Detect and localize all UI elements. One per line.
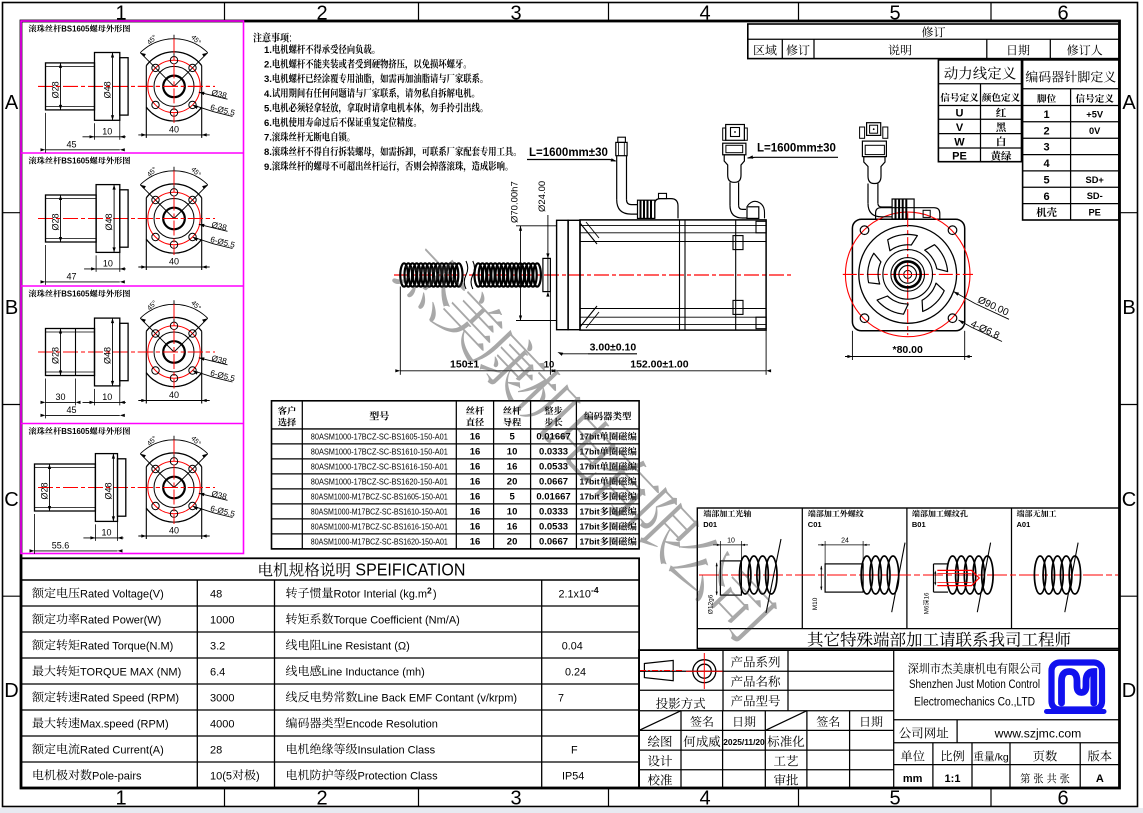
- svg-text:-4: -4: [591, 585, 599, 595]
- front view cable elbow: [867, 184, 869, 204]
- svg-text:Electromechanics Co.,LTD: Electromechanics Co.,LTD: [914, 695, 1035, 709]
- svg-text:mm: mm: [903, 773, 923, 785]
- svg-text:10: 10: [102, 126, 112, 136]
- svg-text:Ø48: Ø48: [103, 482, 113, 499]
- nut 4 dim 40: [138, 535, 209, 537]
- svg-text:55.6: 55.6: [52, 540, 70, 550]
- model table headers: [278, 406, 295, 415]
- svg-text:C: C: [1122, 489, 1136, 511]
- right cable gland: [747, 207, 759, 219]
- nut 4 bolt holes: [189, 465, 196, 472]
- svg-text:80ASM1000-17BCZ-SC-BS1620-150-: 80ASM1000-17BCZ-SC-BS1620-150-A01: [311, 477, 448, 486]
- nut 3 angle dim 45deg: [140, 318, 174, 352]
- svg-text:C01: C01: [808, 520, 822, 529]
- svg-text:4: 4: [699, 3, 710, 25]
- flange taper lines: [580, 223, 597, 244]
- motor body: [580, 220, 766, 330]
- title block grid: [639, 670, 894, 672]
- end panel title C01: [808, 510, 864, 518]
- nut 4 bolt circle red: [148, 461, 200, 513]
- svg-text:TORQUE MAX (NM): TORQUE MAX (NM): [80, 666, 181, 678]
- svg-text:SD+: SD+: [1086, 175, 1105, 185]
- svg-text:3.: 3.: [264, 74, 272, 85]
- nut 4 red crosshair: [173, 440, 175, 525]
- svg-text:L=1600mm±30: L=1600mm±30: [757, 143, 836, 155]
- nut 4 side view: [38, 487, 215, 489]
- nut 1 dim 40: [138, 134, 209, 136]
- svg-text:2025/11/20: 2025/11/20: [723, 737, 765, 747]
- ball screw coil right segment: [475, 263, 483, 286]
- svg-text:30: 30: [55, 392, 65, 402]
- svg-text:10: 10: [102, 392, 112, 402]
- signature rows: [648, 735, 672, 747]
- svg-text:Rated Power(W): Rated Power(W): [80, 614, 161, 626]
- nut 3 label D38: [199, 358, 211, 361]
- svg-text:Max.speed (RPM): Max.speed (RPM): [80, 718, 169, 730]
- svg-text:0.0533: 0.0533: [539, 462, 568, 473]
- svg-text:2.: 2.: [264, 60, 272, 71]
- svg-text:16: 16: [470, 432, 481, 443]
- svg-text:16: 16: [470, 462, 481, 473]
- svg-text:16: 16: [470, 492, 481, 503]
- left cable gland on body: [638, 200, 655, 218]
- dim D70.00h7: [516, 225, 556, 227]
- svg-text:C: C: [4, 489, 18, 511]
- svg-text:4000: 4000: [210, 718, 234, 730]
- svg-text:0.24: 0.24: [565, 666, 586, 678]
- svg-text:0.0667: 0.0667: [539, 477, 568, 488]
- nut 2 front view circles: [146, 184, 201, 198]
- svg-text:A: A: [5, 92, 19, 114]
- revision table: [748, 24, 1119, 59]
- svg-text:Line Inductance (mh): Line Inductance (mh): [322, 666, 425, 678]
- svg-text:SD-: SD-: [1087, 191, 1103, 201]
- nut 3 label 6-D5.5: [193, 371, 214, 378]
- svg-text:0.0667: 0.0667: [539, 537, 568, 548]
- svg-text:40: 40: [169, 390, 179, 400]
- nut 4 label D38: [199, 493, 211, 496]
- svg-text:6.4: 6.4: [210, 666, 225, 678]
- dim D24.00: [547, 215, 549, 258]
- nut 1 red crosshair: [173, 38, 175, 123]
- svg-text:152.00±1.00: 152.00±1.00: [630, 359, 688, 371]
- end panel A01 drawing: [1034, 556, 1045, 594]
- company logo JMC: [1047, 663, 1105, 712]
- nut 2 bottom dims: [95, 255, 97, 272]
- svg-text:2: 2: [316, 788, 327, 810]
- svg-text:*80.00: *80.00: [893, 344, 924, 356]
- svg-text:L=1600mm±30: L=1600mm±30: [529, 147, 608, 159]
- svg-text:1000: 1000: [210, 614, 234, 626]
- end panel C01 thread dim: [820, 566, 822, 590]
- nut 3 dim D28: [60, 329, 62, 376]
- svg-text:M6深16: M6深16: [923, 592, 931, 614]
- nut 1 bolt holes: [189, 64, 196, 71]
- svg-text:0.01667: 0.01667: [536, 492, 570, 503]
- body section verticals: [679, 220, 681, 330]
- svg-text:IP54: IP54: [562, 770, 584, 782]
- nut 3 red crosshair: [173, 304, 175, 389]
- svg-text:10: 10: [507, 507, 518, 518]
- end panel title A01: [1017, 510, 1057, 518]
- svg-text:Ø28: Ø28: [40, 482, 50, 499]
- svg-text:Ø28: Ø28: [51, 81, 61, 98]
- svg-text:24: 24: [841, 538, 849, 545]
- rear corner bolts: [756, 221, 766, 233]
- svg-text:16: 16: [470, 537, 481, 548]
- svg-text:): ): [433, 588, 437, 600]
- encoder pin definition table: [1023, 60, 1119, 220]
- power line definition table: [938, 60, 1021, 162]
- svg-text:B: B: [1122, 297, 1135, 319]
- front view cable gland: [892, 199, 914, 219]
- svg-text:5: 5: [889, 3, 900, 25]
- svg-text:A01: A01: [1017, 520, 1031, 529]
- nut 4 front view circles: [146, 453, 201, 467]
- svg-text:D: D: [1122, 680, 1136, 702]
- notes title: [253, 32, 292, 44]
- end panel D01 diameter dim: [716, 563, 718, 595]
- svg-text:80ASM1000-17BCZ-SC-BS1610-150-: 80ASM1000-17BCZ-SC-BS1610-150-A01: [311, 447, 448, 456]
- nut 1 dim D48: [112, 53, 114, 121]
- svg-text:80ASM1000-M17BCZ-SC-BS1616-150: 80ASM1000-M17BCZ-SC-BS1616-150-A01: [311, 522, 448, 531]
- svg-text:BS1605: BS1605: [61, 290, 90, 299]
- nut panel 4 title: [29, 427, 130, 436]
- end panels red centerline: [699, 574, 1118, 576]
- svg-text:80ASM1000-M17BCZ-SC-BS1610-150: 80ASM1000-M17BCZ-SC-BS1610-150-A01: [311, 507, 448, 516]
- svg-text:Rated Current(A): Rated Current(A): [80, 744, 164, 756]
- svg-text:Ø24.00: Ø24.00: [537, 181, 548, 212]
- front view body circle: [859, 226, 957, 324]
- nut 2 label 6-D5.5: [193, 237, 214, 244]
- nut 1 label 6-D5.5: [193, 105, 214, 112]
- svg-text:+5V: +5V: [1086, 110, 1104, 120]
- svg-text:Line Resistant (Ω): Line Resistant (Ω): [322, 640, 410, 652]
- svg-text:48: 48: [210, 588, 222, 600]
- svg-text:4: 4: [1044, 158, 1051, 170]
- front view square flange: [852, 219, 964, 331]
- svg-text:40: 40: [169, 124, 179, 134]
- svg-text:B01: B01: [912, 520, 926, 529]
- nut 3 bolt circle red: [148, 326, 200, 378]
- svg-text:2: 2: [427, 585, 432, 595]
- svg-text:4: 4: [699, 788, 710, 810]
- model selection table: [272, 401, 640, 549]
- bottom dimension lines: [399, 287, 401, 375]
- svg-text:BS1605: BS1605: [61, 157, 90, 166]
- svg-text:10: 10: [101, 527, 111, 537]
- svg-text:28: 28: [210, 744, 222, 756]
- svg-text:10: 10: [727, 538, 735, 545]
- dim *80.00: [851, 331, 853, 360]
- svg-text:5: 5: [509, 432, 515, 443]
- svg-text:80ASM1000-17BCZ-SC-BS1616-150-: 80ASM1000-17BCZ-SC-BS1616-150-A01: [311, 462, 448, 471]
- svg-text:16: 16: [507, 522, 518, 533]
- svg-text:Line Back EMF Contant (v/krpm): Line Back EMF Contant (v/krpm): [358, 692, 518, 704]
- front view red circle D90: [845, 212, 970, 337]
- svg-text:0.0533: 0.0533: [539, 522, 568, 533]
- right cable tube: [729, 182, 731, 205]
- nut 2 red crosshair: [173, 171, 175, 256]
- front view connector body: [867, 123, 881, 136]
- svg-text:D01: D01: [703, 520, 717, 529]
- svg-text:0.0333: 0.0333: [539, 507, 568, 518]
- svg-text:Ø48: Ø48: [103, 81, 113, 98]
- notes list: [264, 44, 374, 56]
- svg-text:10: 10: [507, 447, 518, 458]
- svg-text:/kg: /kg: [995, 752, 1009, 764]
- svg-text:80ASM1000-17BCZ-SC-BS1605-150-: 80ASM1000-17BCZ-SC-BS1605-150-A01: [311, 432, 448, 441]
- svg-text:Ø28: Ø28: [51, 347, 61, 364]
- svg-text:F: F: [571, 744, 578, 756]
- svg-text:A: A: [1096, 773, 1104, 785]
- nut 2 bolt circle red: [148, 192, 200, 244]
- revision table headers: [922, 26, 945, 37]
- nut 1 dim D28: [60, 63, 62, 110]
- svg-text:U: U: [956, 108, 964, 120]
- svg-text:1:1: 1:1: [945, 773, 961, 785]
- svg-text:): ): [256, 770, 260, 782]
- nut 1 side view: [38, 85, 215, 87]
- svg-text:1: 1: [115, 788, 126, 810]
- svg-text:D: D: [4, 680, 18, 702]
- company name: [908, 662, 1041, 674]
- end panel title B01: [912, 510, 968, 518]
- nut 4 bottom dims: [94, 524, 96, 541]
- svg-text:8.: 8.: [264, 147, 272, 158]
- svg-text:Rated Voltage(V): Rated Voltage(V): [80, 588, 164, 600]
- svg-text:80ASM1000-M17BCZ-SC-BS1605-150: 80ASM1000-M17BCZ-SC-BS1605-150-A01: [311, 492, 448, 501]
- svg-text:10: 10: [103, 258, 113, 268]
- svg-text:Pole-pairs: Pole-pairs: [92, 770, 142, 782]
- company grid: [894, 719, 1120, 721]
- svg-text:7.: 7.: [264, 133, 272, 144]
- nut panel 1 title: [29, 25, 130, 34]
- nut 2 label D38: [199, 224, 211, 227]
- svg-text:0.04: 0.04: [562, 640, 583, 652]
- svg-text:3.2: 3.2: [210, 640, 225, 652]
- nut 1 angle dim 45deg: [140, 53, 174, 87]
- svg-text:4.: 4.: [264, 89, 272, 100]
- front view red crosshair: [907, 213, 909, 335]
- left cable tube: [616, 156, 618, 200]
- svg-text:Insulation Class: Insulation Class: [358, 744, 436, 756]
- svg-text:7: 7: [558, 692, 564, 704]
- svg-text:W: W: [954, 136, 965, 148]
- svg-text:Rotor Interial (kg.m: Rotor Interial (kg.m: [334, 588, 428, 600]
- svg-text:17bit: 17bit: [580, 522, 600, 532]
- label D90.00: [954, 292, 976, 304]
- svg-text:16: 16: [470, 522, 481, 533]
- svg-text:40: 40: [169, 526, 179, 536]
- svg-text:3: 3: [510, 3, 521, 25]
- projection symbol trapezoid: [644, 660, 673, 680]
- svg-text:5: 5: [509, 492, 515, 503]
- signature header diagonals: [639, 711, 681, 731]
- nut 2 bolt holes: [189, 196, 196, 203]
- nut panels magenta border: [21, 21, 244, 554]
- svg-text:2: 2: [1044, 125, 1050, 137]
- svg-text:0.0333: 0.0333: [539, 447, 568, 458]
- front view fan slots: [888, 234, 918, 250]
- svg-text:6: 6: [1044, 191, 1050, 203]
- svg-text:10(5: 10(5: [210, 770, 232, 782]
- projection symbol circle: [693, 660, 716, 683]
- svg-text:10: 10: [544, 360, 555, 371]
- svg-text:6.: 6.: [264, 118, 272, 129]
- svg-text:6: 6: [1057, 788, 1068, 810]
- end panel B01 thread dim: [934, 572, 936, 584]
- svg-text:1: 1: [1044, 109, 1050, 121]
- nut 3 bottom dims: [94, 389, 96, 406]
- svg-text:16: 16: [470, 507, 481, 518]
- front view inner circles: [883, 250, 933, 300]
- svg-text:47: 47: [66, 271, 76, 281]
- end machining note: [808, 632, 1071, 647]
- svg-text:3.00±0.10: 3.00±0.10: [590, 342, 637, 354]
- svg-text:5: 5: [1044, 174, 1050, 186]
- title block labels: [656, 697, 705, 709]
- svg-text:B: B: [5, 297, 18, 319]
- svg-text:3: 3: [510, 788, 521, 810]
- svg-text:0V: 0V: [1089, 126, 1101, 136]
- nut 1 label D38: [199, 92, 211, 95]
- nut 2 dim 40: [138, 266, 209, 268]
- svg-text:5.: 5.: [264, 103, 272, 114]
- svg-text:45: 45: [66, 405, 76, 415]
- nut 1 bottom dims: [94, 123, 96, 140]
- svg-text:PE: PE: [952, 151, 967, 163]
- svg-text:V: V: [956, 122, 964, 134]
- spec table rows: [32, 587, 164, 600]
- svg-text:9.: 9.: [264, 162, 272, 173]
- nut 1 bolt circle red: [148, 60, 200, 112]
- nut 3 front view circles: [146, 317, 201, 331]
- title block outline: [639, 650, 1120, 788]
- svg-text:Ø70.00h7: Ø70.00h7: [510, 181, 521, 223]
- nut 3 dim 40: [138, 400, 209, 402]
- nut 4 label 6-D5.5: [193, 506, 214, 513]
- nut 2 dim D48: [113, 185, 115, 253]
- nut 4 dim D48: [112, 454, 114, 522]
- screw break lines: [464, 261, 468, 289]
- nut 4 dim D28: [49, 464, 51, 511]
- nut 2 angle dim 45deg: [140, 185, 174, 219]
- svg-text:Ø48: Ø48: [103, 347, 113, 364]
- nut 3 dim D48: [112, 318, 114, 386]
- label 4-D6.8: [959, 320, 973, 328]
- svg-text:5: 5: [889, 788, 900, 810]
- svg-text:BS1605: BS1605: [61, 427, 90, 436]
- svg-text:PE: PE: [1088, 208, 1100, 218]
- svg-text:2.1x10: 2.1x10: [559, 588, 591, 600]
- nut panel 2 title: [29, 157, 130, 166]
- nut 1 front view circles: [146, 52, 201, 66]
- svg-text:Shenzhen Just Motion Control: Shenzhen Just Motion Control: [909, 677, 1040, 691]
- right cable connector: [726, 125, 745, 141]
- nut panel 3 title: [29, 290, 130, 299]
- svg-text:6: 6: [1057, 3, 1068, 25]
- nut 3 bolt holes: [189, 330, 196, 337]
- svg-text:17bit: 17bit: [580, 537, 600, 547]
- screw end journal: [543, 258, 551, 291]
- end machining panels box: [697, 508, 1119, 648]
- end panel D01 drawing: [720, 561, 741, 595]
- motor pilot plate: [557, 220, 569, 329]
- svg-text:Rated Speed (RPM): Rated Speed (RPM): [80, 692, 179, 704]
- zone ticks: [224, 3, 226, 22]
- left cable connector: [618, 137, 626, 142]
- front view top connector dome: [876, 208, 940, 220]
- svg-text:BS1605: BS1605: [61, 25, 90, 34]
- svg-text:Torque Coefficient (Nm/A): Torque Coefficient (Nm/A): [334, 614, 460, 626]
- svg-text:16: 16: [470, 477, 481, 488]
- svg-text:40: 40: [169, 257, 179, 267]
- svg-text:www.szjmc.com: www.szjmc.com: [994, 727, 1082, 741]
- motor flange plate: [568, 220, 580, 329]
- end panel B01 drawing: [934, 563, 949, 565]
- motor specification table: [21, 558, 639, 788]
- svg-text:Ø28: Ø28: [51, 213, 61, 230]
- svg-text::: :: [289, 33, 292, 45]
- svg-text:20: 20: [507, 477, 518, 488]
- nut 4 angle dim 45deg: [140, 454, 174, 488]
- svg-text:16: 16: [470, 447, 481, 458]
- svg-text:Rated Torque(N.M): Rated Torque(N.M): [80, 640, 173, 652]
- svg-text:80ASM1000-M17BCZ-SC-BS1620-150: 80ASM1000-M17BCZ-SC-BS1620-150-A01: [311, 537, 448, 546]
- ball screw coil left segment: [400, 263, 408, 286]
- svg-text:16: 16: [507, 462, 518, 473]
- svg-text:A: A: [1122, 92, 1136, 114]
- end panel title D01: [703, 510, 751, 518]
- svg-text:1.: 1.: [264, 45, 272, 56]
- svg-text:M10: M10: [812, 597, 819, 610]
- watermark company name diagonal: [391, 240, 780, 646]
- nut 2 dim D28: [60, 195, 62, 242]
- svg-text:17bit: 17bit: [580, 507, 600, 517]
- end panel B01 red tapped hole: [937, 570, 979, 585]
- svg-text:Encode Resolution: Encode Resolution: [346, 718, 438, 730]
- svg-text:2: 2: [316, 3, 327, 25]
- svg-text:3: 3: [1044, 142, 1050, 154]
- nut 2 side view: [38, 218, 215, 220]
- svg-text:3000: 3000: [210, 692, 234, 704]
- svg-text:45: 45: [66, 139, 76, 149]
- svg-text:Ø48: Ø48: [104, 213, 114, 230]
- side view red centerline: [394, 274, 793, 276]
- svg-text:Protection Class: Protection Class: [358, 770, 439, 782]
- nut 3 side view: [38, 351, 215, 353]
- spec table title: [259, 562, 350, 576]
- end panel C01 drawing: [825, 564, 863, 592]
- svg-text:20: 20: [507, 537, 518, 548]
- front view corner holes: [860, 226, 869, 235]
- svg-text:SPEIFICATION: SPEIFICATION: [355, 560, 465, 580]
